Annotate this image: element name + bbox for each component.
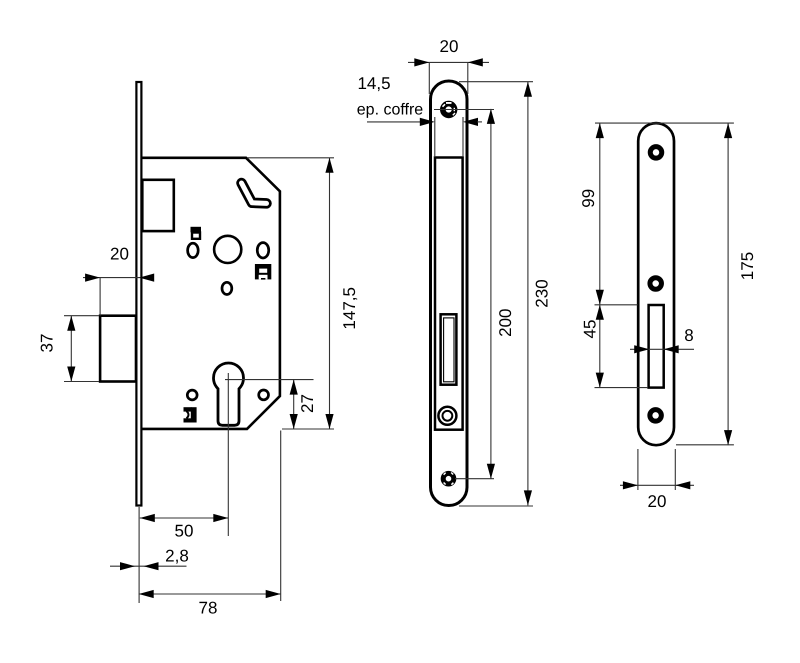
dimension 78 (case depth) [139, 590, 281, 618]
handle follower circle [214, 236, 241, 263]
cylinder horizontal centerline [225, 379, 314, 381]
dimension 27 (cylinder axis to bottom) [290, 380, 317, 429]
latch guide box (top left inside body) [142, 180, 174, 231]
faceplate front (stadium outline) [431, 81, 468, 506]
svg-text:20: 20 [440, 37, 459, 56]
small hole below follower [222, 282, 232, 294]
small circle left bottom [187, 390, 197, 400]
strike top screw hole [650, 147, 662, 159]
svg-text:200: 200 [496, 309, 515, 337]
dimension 230 (plate height) [459, 82, 551, 506]
dimension 99 [579, 123, 604, 305]
dimension 2,8 (faceplate thickness) [110, 547, 189, 571]
dimension 50 (backset) [140, 514, 229, 541]
bottom screw [443, 473, 454, 485]
latch opening outer [441, 314, 457, 384]
svg-text:2,8: 2,8 [165, 547, 189, 566]
strike plate outline [638, 123, 674, 445]
oval hole left of follower [188, 243, 199, 257]
svg-text:20: 20 [648, 492, 667, 511]
dimension 45 [580, 305, 648, 388]
svg-text:147,5: 147,5 [340, 287, 359, 330]
dimension 147,5 (body height) [247, 158, 359, 429]
extension line body right bottom [280, 431, 282, 602]
svg-text:37: 37 [37, 334, 56, 353]
svg-text:ep. coffre: ep. coffre [357, 102, 424, 119]
hook shape (left, near bottom) [184, 407, 197, 422]
small circle right bottom [259, 390, 269, 400]
strike middle screw hole [650, 278, 662, 290]
svg-text:50: 50 [175, 522, 194, 541]
deadbolt hole outer [438, 407, 456, 425]
svg-text:78: 78 [199, 599, 218, 618]
svg-text:99: 99 [579, 189, 598, 208]
top screw [443, 102, 456, 115]
dimension 20 (latch projection) [83, 245, 154, 316]
lock body outline with chamfered right corners [142, 158, 280, 429]
dimension 8 (cutout width) [630, 326, 694, 353]
svg-text:45: 45 [580, 320, 599, 339]
dimension 20 (strike width, bottom) [620, 449, 694, 511]
cylinder vertical centerline [227, 373, 229, 536]
latch bolt (protruding left) [100, 316, 136, 382]
dimension 14,5 arrows (case thickness) [367, 117, 482, 157]
faceplate (side view, thin vertical plate) [136, 82, 141, 506]
extension line faceplate bottom [138, 507, 140, 603]
dimension 175 (strike height) [595, 123, 757, 445]
lock case behind plate [435, 158, 463, 430]
dimension 37 (latch height) [37, 316, 99, 382]
curved slot white core [242, 183, 267, 203]
svg-text:175: 175 [738, 252, 757, 280]
oval hole right of follower [257, 243, 269, 258]
svg-text:230: 230 [532, 279, 551, 307]
small stop block (left of follower) [191, 227, 202, 239]
clip shape below right oval [255, 264, 271, 280]
svg-text:14,5: 14,5 [357, 74, 390, 93]
latch opening inner [444, 318, 454, 382]
strike cutout rectangle [649, 305, 664, 388]
deadbolt hole inner [443, 411, 453, 421]
svg-text:20: 20 [110, 245, 129, 264]
curved slot (hockey-stick slot) black outline [242, 183, 267, 203]
dimension 200 (screw centers) [434, 109, 515, 479]
svg-text:27: 27 [298, 394, 317, 413]
euro cylinder profile [214, 363, 244, 425]
dimension 20 (plate width, top) [408, 37, 489, 94]
svg-text:8: 8 [684, 326, 693, 345]
strike bottom screw hole [650, 410, 662, 422]
